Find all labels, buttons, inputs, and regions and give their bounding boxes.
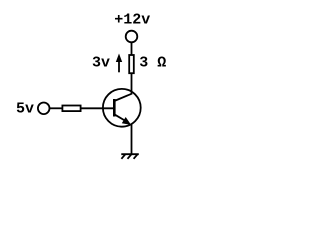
- transistor body circle: [103, 89, 141, 127]
- wire resistor R2 to base: [81, 107, 115, 109]
- svg-text:3 Ω: 3 Ω: [139, 54, 166, 71]
- transistor Q1: [103, 89, 141, 127]
- ground: [121, 154, 139, 159]
- svg-text:5v: 5v: [16, 101, 34, 118]
- terminal 5V: [38, 103, 50, 115]
- base bar: [113, 99, 116, 117]
- resistor R2: [62, 106, 80, 112]
- voltage arrow: [116, 54, 122, 73]
- svg-text:+12v: +12v: [114, 11, 150, 28]
- wire resistor R1 to collector: [131, 73, 133, 94]
- emitter lead: [114, 114, 128, 122]
- wire terminal to resistor R2: [50, 107, 63, 109]
- resistor R1: [129, 55, 134, 73]
- wire emitter to ground: [131, 124, 133, 154]
- emitter arrowhead: [122, 117, 131, 125]
- collector lead: [114, 94, 131, 101]
- svg-text:3v: 3v: [92, 54, 110, 71]
- wire terminal to resistor R1: [131, 42, 133, 55]
- terminal +12V: [126, 31, 138, 43]
